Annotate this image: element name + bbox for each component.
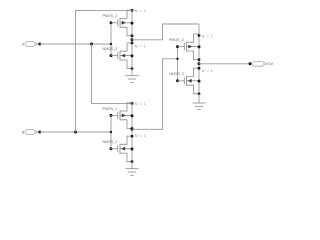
svg-text:NMOS_2: NMOS_2 (103, 47, 118, 51)
wire bottom gate bus (110, 115, 112, 148)
output port Out (252, 61, 273, 66)
transistor NMOS_3 (169, 68, 199, 94)
node port A pin (38, 43, 41, 46)
node NMOS_1 bulk pin (131, 148, 134, 151)
node NMOS_3 lower pin (198, 92, 201, 95)
node right bus junction (176, 58, 178, 60)
node top stack output junction (131, 38, 134, 41)
node NMOS_2 upper pin (131, 42, 134, 45)
svg-text:N = 1: N = 1 (202, 34, 213, 38)
wire top output to right stack top (132, 24, 199, 40)
svg-text:N = 1: N = 1 (135, 9, 146, 13)
node B branch junction (74, 131, 77, 134)
node NMOS_2 lower pin (131, 67, 134, 70)
transistor PMOS_2 (103, 10, 133, 36)
wire right stack chain (198, 24, 200, 94)
node PMOS_3 bulk pin (198, 45, 201, 48)
svg-text:NMOS_3: NMOS_3 (169, 72, 184, 76)
ground right stack (193, 94, 206, 110)
node A branch junction (90, 43, 93, 46)
node NMOS_3 bulk pin (198, 80, 201, 83)
wire bottom stack chain (131, 103, 133, 161)
node PMOS_3 upper pin (198, 34, 201, 37)
node right stack output junction (198, 62, 201, 65)
node output pin (249, 62, 252, 65)
svg-text:N = 1: N = 1 (135, 102, 146, 106)
node bottom bus B junction (110, 131, 112, 133)
wire B branch to top stack rail (76, 10, 133, 132)
node NMOS_2 bulk pin (131, 54, 134, 57)
node bottom stack output junction (131, 128, 134, 131)
svg-text:N = 1: N = 1 (202, 69, 213, 73)
svg-text:PMOS_2: PMOS_2 (103, 14, 118, 18)
transistor PMOS_1 (103, 103, 133, 129)
svg-text:PMOS_3: PMOS_3 (169, 38, 184, 42)
transistor NMOS_1 (103, 136, 133, 162)
transistor NMOS_2 (103, 43, 133, 69)
node top rail junction (131, 9, 134, 12)
wire A (40, 43, 111, 45)
ground bottom stack (126, 162, 139, 176)
node PMOS_3 lower pin (198, 58, 201, 61)
input port A (22, 42, 38, 47)
node NMOS_1 lower pin (131, 160, 134, 163)
wire B (40, 131, 111, 133)
node PMOS_1 lower pin (131, 127, 134, 130)
wire top gate bus (110, 23, 112, 56)
wire output to port (199, 63, 250, 65)
node port B pin (38, 131, 41, 134)
svg-text:Out: Out (267, 62, 273, 66)
node NMOS_3 upper pin (198, 67, 201, 70)
node PMOS_2 bulk pin (131, 22, 134, 25)
svg-text:PMOS_1: PMOS_1 (103, 107, 118, 111)
svg-text:N = 1: N = 1 (135, 134, 146, 138)
node bottom stack top junction (131, 102, 134, 105)
transistor PMOS_3 (169, 34, 199, 60)
svg-text:NMOS_1: NMOS_1 (103, 140, 118, 144)
node PMOS_1 bulk pin (131, 114, 134, 117)
wire bottom output to right gate bus (132, 59, 178, 130)
svg-text:N = 1: N = 1 (135, 45, 146, 49)
ground top stack (126, 69, 139, 83)
input port B (22, 130, 38, 135)
node top bus A junction (110, 43, 112, 45)
wire top stack chain (131, 10, 133, 68)
node NMOS_1 upper pin (131, 135, 134, 138)
wire A branch to bottom stack top (92, 44, 133, 103)
node PMOS_2 lower pin (131, 34, 134, 37)
wire right gate bus (177, 47, 179, 81)
